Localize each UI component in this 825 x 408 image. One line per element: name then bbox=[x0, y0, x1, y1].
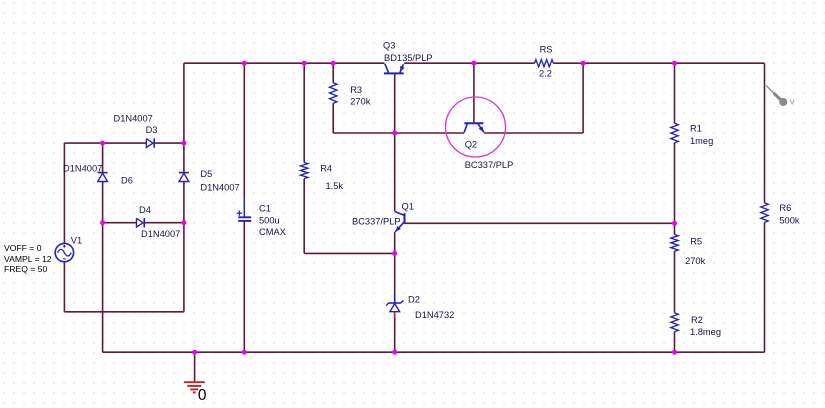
svg-text:1.5k: 1.5k bbox=[326, 181, 344, 191]
svg-text:D2: D2 bbox=[408, 294, 420, 304]
svg-text:RS: RS bbox=[540, 45, 553, 55]
svg-text:2.2: 2.2 bbox=[539, 69, 552, 79]
svg-text:BC337/PLP: BC337/PLP bbox=[352, 216, 401, 226]
svg-text:D1N4007: D1N4007 bbox=[63, 163, 102, 173]
svg-text:R2: R2 bbox=[691, 315, 703, 325]
svg-text:D3: D3 bbox=[146, 125, 158, 135]
svg-text:D1N4732: D1N4732 bbox=[415, 310, 454, 320]
svg-text:R6: R6 bbox=[779, 203, 791, 213]
svg-text:R5: R5 bbox=[690, 236, 702, 246]
svg-text:270k: 270k bbox=[350, 97, 371, 107]
svg-text:V1: V1 bbox=[71, 235, 82, 245]
svg-text:BC337/PLP: BC337/PLP bbox=[465, 160, 514, 170]
svg-text:R1: R1 bbox=[690, 123, 702, 133]
svg-text:FREQ = 50: FREQ = 50 bbox=[4, 264, 47, 274]
svg-text:500k: 500k bbox=[779, 216, 800, 226]
svg-text:1.8meg: 1.8meg bbox=[690, 327, 721, 337]
svg-text:C1: C1 bbox=[259, 203, 271, 213]
svg-text:1meg: 1meg bbox=[690, 136, 713, 146]
svg-text:270k: 270k bbox=[685, 256, 706, 266]
svg-text:D1N4007: D1N4007 bbox=[141, 229, 180, 239]
svg-text:D4: D4 bbox=[139, 205, 151, 215]
svg-text:R3: R3 bbox=[350, 85, 362, 95]
svg-text:500u: 500u bbox=[259, 215, 280, 225]
svg-text:D1N4007: D1N4007 bbox=[200, 182, 239, 192]
svg-text:VOFF = 0: VOFF = 0 bbox=[4, 243, 42, 253]
svg-text:0: 0 bbox=[198, 387, 207, 404]
svg-text:v: v bbox=[790, 97, 795, 108]
svg-text:BD135/PLP: BD135/PLP bbox=[384, 53, 433, 63]
svg-text:R4: R4 bbox=[320, 163, 332, 173]
svg-text:D6: D6 bbox=[121, 175, 133, 185]
svg-text:CMAX: CMAX bbox=[259, 227, 286, 237]
svg-text:D1N4007: D1N4007 bbox=[114, 113, 153, 123]
svg-text:Q2: Q2 bbox=[465, 139, 477, 149]
svg-text:VAMPL = 12: VAMPL = 12 bbox=[4, 254, 52, 264]
svg-text:Q1: Q1 bbox=[402, 202, 414, 212]
svg-text:Q3: Q3 bbox=[383, 41, 395, 51]
svg-text:D5: D5 bbox=[200, 169, 212, 179]
